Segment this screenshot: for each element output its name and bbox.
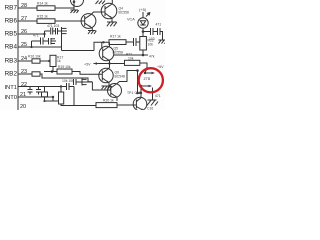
svg-text:RB3: RB3: [5, 58, 18, 65]
wire RB4 pin 25: [18, 46, 62, 48]
wire down x44.5: [44, 87, 46, 93]
ground: [147, 100, 158, 106]
cap row to ground: [74, 79, 88, 86]
ground: [71, 10, 79, 13]
transistor Q8: [108, 84, 122, 98]
svg-text:+5V: +5V: [84, 62, 91, 66]
svg-text:471: 471: [156, 23, 162, 27]
wire left: [44, 71, 57, 73]
node: [30, 46, 32, 48]
wire Q7 emitter down: [108, 83, 110, 87]
node: [146, 67, 149, 70]
resistor R16: [32, 59, 40, 63]
transistor Q4: [81, 14, 96, 29]
wire bottom: [44, 100, 59, 102]
ground: [88, 31, 96, 35]
wire R22 bottom: [142, 50, 144, 55]
wire bottom run: [61, 104, 96, 106]
resistor R20: [96, 103, 117, 108]
wire Q5 collector to top edge: [111, 0, 114, 4]
svg-text:BC558: BC558: [113, 51, 123, 55]
wire Q8 emitter down: [116, 98, 118, 102]
wire RB7 pin 28: [18, 7, 37, 9]
wire: [32, 40, 41, 42]
wire to Q7 base: [72, 72, 102, 75]
resistor R18: [32, 72, 40, 76]
wire RB3 pin 24: [18, 60, 32, 62]
wire to Q6 base: [101, 42, 103, 48]
svg-text:RB7: RB7: [5, 5, 18, 12]
wire: [55, 20, 84, 22]
wire: [43, 40, 49, 42]
capacitor C12: [49, 38, 57, 45]
resistor R17: [109, 40, 126, 45]
svg-text:10k 10k: 10k 10k: [62, 79, 74, 83]
wire: [55, 7, 74, 9]
resistor vertical bottom-left: [59, 92, 64, 104]
wire: [58, 30, 62, 32]
wire down from RB5 ground stem: [61, 35, 63, 51]
wire: [153, 31, 158, 33]
svg-text:RB4: RB4: [5, 44, 18, 51]
svg-text:1k: 1k: [57, 59, 61, 63]
transistor Q6: [99, 46, 114, 61]
red annotation circle: [139, 68, 163, 92]
resistor R14: [37, 6, 55, 11]
svg-text:+5V: +5V: [157, 65, 164, 69]
wire branch up: [31, 41, 33, 47]
wire Q8 base: [92, 82, 110, 90]
wire to Q9 base: [117, 104, 136, 106]
wire Q5 emitter down: [111, 18, 113, 22]
wire up to top edge: [73, 0, 75, 10]
capacitor 2: [158, 28, 161, 35]
wire across: [62, 50, 95, 52]
LED arrows: [146, 13, 150, 17]
node: [136, 69, 139, 72]
wire joining base run: [87, 81, 92, 83]
node junction: [73, 1, 76, 4]
vertical link: [137, 71, 139, 94]
ground: [102, 86, 112, 89]
resistor R22 vertical: [140, 37, 147, 51]
svg-text:R16 10k: R16 10k: [28, 55, 41, 59]
svg-text:28: 28: [21, 3, 27, 9]
svg-text:471 103: 471 103: [47, 24, 59, 28]
svg-text:BC558: BC558: [119, 11, 129, 15]
svg-text:23: 23: [21, 69, 27, 75]
node: [136, 92, 139, 95]
wire jog to Q6: [94, 42, 109, 50]
wire Q8 collector up and right: [117, 71, 138, 84]
svg-text:27: 27: [21, 16, 27, 22]
cap hang 2: [36, 87, 41, 95]
svg-text:C15: C15: [135, 91, 141, 95]
stray hatch top (cropped ground): [96, 1, 106, 5]
wire INT0 pin 21: [18, 96, 53, 98]
wire Q6 collector up: [108, 42, 111, 46]
svg-text:TP1: TP1: [127, 91, 133, 95]
svg-text:10k: 10k: [148, 43, 154, 47]
node under LED: [142, 30, 145, 33]
resistor R17b vertical: [50, 55, 56, 66]
wire: [136, 41, 140, 43]
wire down from R17b: [52, 67, 54, 72]
wire Q4 collector to Q5 base: [91, 12, 105, 15]
node: [48, 60, 50, 62]
wire: [126, 41, 134, 43]
wire up: [44, 31, 46, 38]
wire R21 right then down into circle: [140, 63, 147, 69]
wire: [40, 74, 92, 82]
svg-text:26: 26: [21, 29, 27, 35]
svg-text:BC548: BC548: [115, 75, 125, 79]
capacitor C11: [41, 38, 44, 45]
svg-text:(+5): (+5): [139, 7, 147, 12]
transistor Q3 (cropped at top): [71, 0, 84, 7]
wire RB6 pin 27: [18, 20, 37, 22]
svg-text:47k: 47k: [149, 55, 155, 59]
wire link: [138, 92, 142, 94]
node: [140, 92, 142, 94]
svg-text:20: 20: [20, 104, 26, 110]
wire to R21: [110, 63, 125, 65]
wire right: [143, 31, 151, 33]
transistor Q7: [99, 68, 113, 82]
svg-text:RB2: RB2: [5, 71, 18, 78]
circled component: arrow 2: [140, 85, 152, 87]
transistor Q5: [101, 3, 117, 19]
svg-text:R19 10k: R19 10k: [58, 65, 71, 69]
svg-text:471: 471: [33, 34, 39, 38]
node: [43, 33, 45, 35]
node: [108, 62, 110, 64]
resistor R21: [125, 60, 140, 65]
svg-text:22: 22: [21, 82, 27, 88]
svg-text:R20 1k: R20 1k: [103, 99, 114, 103]
wire Q6 emitter down: [109, 61, 111, 64]
wire arrow2 tip down to ground: [152, 88, 154, 101]
wire RB2 pin 23: [18, 73, 32, 75]
node: [142, 54, 145, 57]
svg-text:ZTB: ZTB: [144, 77, 151, 81]
chip right edge: [17, 0, 19, 110]
capacitor: [151, 28, 154, 35]
wire Q7 collector up: [108, 64, 111, 69]
resistor R19: [57, 69, 72, 74]
small resistor box: [42, 92, 48, 97]
node: [51, 70, 54, 73]
svg-text:21: 21: [20, 92, 26, 98]
capacitor C9: [51, 28, 53, 35]
transistor Q9: [133, 97, 147, 111]
wire R22 top: [142, 32, 144, 37]
wire RB5 pin 26: [18, 33, 45, 35]
svg-text:25: 25: [21, 42, 27, 48]
svg-text:471: 471: [155, 94, 161, 98]
wire: [53, 30, 56, 32]
ground (side): [62, 27, 68, 35]
svg-text:C16: C16: [147, 107, 153, 111]
resistor R15: [37, 19, 55, 24]
svg-text:R15 1k: R15 1k: [37, 15, 48, 19]
node top of that resistor: [60, 87, 62, 93]
wire: [44, 97, 46, 101]
capacitor C10: [56, 28, 58, 35]
wire Q9 collector up: [140, 86, 142, 98]
capacitor C14: [67, 83, 70, 90]
wire: [40, 60, 50, 62]
svg-text:RB5: RB5: [5, 31, 18, 38]
wire Q4 emitter down: [91, 27, 92, 30]
svg-text:INT0: INT0: [4, 95, 17, 101]
+5 arrow left: [94, 63, 110, 65]
svg-text:24: 24: [21, 56, 27, 62]
svg-text:10k: 10k: [128, 56, 134, 60]
wire: [69, 86, 74, 88]
wire down x74: [73, 87, 75, 106]
wire INT1 pin 22: [18, 86, 67, 88]
svg-text:R17 1k: R17 1k: [110, 35, 121, 39]
svg-text:VCA: VCA: [127, 18, 135, 22]
ground: [159, 40, 166, 44]
node: [52, 96, 54, 98]
wire down: [160, 32, 163, 41]
wire down: [52, 97, 54, 101]
svg-text:INT1: INT1: [4, 85, 17, 91]
text labels: [4, 3, 27, 110]
svg-text:R14 1k: R14 1k: [37, 2, 48, 6]
wire: [45, 30, 51, 32]
wire y55: [114, 54, 148, 56]
svg-text:RB6: RB6: [5, 18, 18, 25]
ground: [107, 22, 117, 26]
circled component: arrow 1: [144, 69, 155, 75]
capacitor C13: [134, 38, 137, 46]
cap hang 1: [28, 87, 33, 95]
LED D2: [138, 12, 148, 32]
